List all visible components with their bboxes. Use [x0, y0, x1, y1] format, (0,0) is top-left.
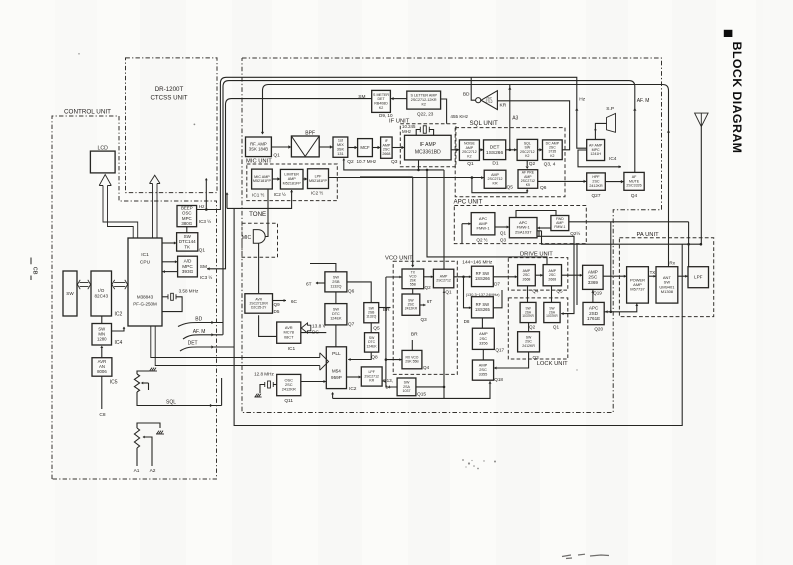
svg-text:Q3: Q3 — [533, 355, 540, 360]
svg-text:APC UNIT: APC UNIT — [454, 199, 483, 206]
svg-text:VCO UNIT: VCO UNIT — [385, 255, 413, 261]
svg-text:Q1: Q1 — [199, 248, 206, 254]
svg-text:BPF: BPF — [305, 131, 315, 137]
svg-text:Q1: Q1 — [445, 290, 452, 295]
svg-text:SM: SM — [200, 264, 207, 270]
svg-text:IC3 ½: IC3 ½ — [199, 218, 211, 224]
svg-text:MIC: MIC — [242, 235, 252, 241]
svg-text:1037: 1037 — [403, 389, 411, 393]
svg-text:Q6: Q6 — [348, 289, 355, 295]
svg-text:Hz: Hz — [199, 204, 205, 209]
svg-text:Q27: Q27 — [591, 193, 600, 199]
svg-text:393G: 393G — [182, 269, 194, 274]
svg-text:DTC: DTC — [332, 312, 340, 316]
svg-text:TX: TX — [650, 270, 656, 275]
svg-text:D2C25-2Y: D2C25-2Y — [251, 305, 267, 309]
svg-text:FMW-1: FMW-1 — [477, 226, 491, 231]
svg-text:HPF: HPF — [592, 175, 600, 179]
svg-text:13.8 V: 13.8 V — [312, 324, 327, 330]
svg-text:2SC3326: 2SC3326 — [626, 184, 641, 188]
svg-text:IC4: IC4 — [609, 156, 617, 162]
svg-text:TK: TK — [184, 244, 190, 249]
svg-text:S.P: S.P — [606, 106, 614, 112]
svg-text:Q1: Q1 — [273, 152, 280, 158]
svg-text:2412KR: 2412KR — [282, 387, 296, 392]
svg-text:Q20: Q20 — [594, 327, 603, 332]
svg-text:2SB: 2SB — [332, 280, 340, 284]
svg-text:1SS266: 1SS266 — [475, 276, 491, 281]
svg-text:CB: CB — [32, 267, 38, 275]
svg-text:LPF: LPF — [694, 274, 703, 279]
svg-text:LCD: LCD — [98, 146, 109, 152]
svg-text:LPF: LPF — [315, 174, 323, 178]
svg-text:3SK 184B: 3SK 184B — [249, 146, 268, 151]
svg-text:AMP: AMP — [588, 269, 598, 274]
svg-text:Q5: Q5 — [556, 289, 563, 294]
svg-text:KR: KR — [500, 103, 507, 109]
svg-text:DET: DET — [188, 341, 198, 347]
svg-text:82C43: 82C43 — [94, 293, 108, 298]
svg-text:M54: M54 — [332, 369, 341, 374]
svg-text:3369: 3369 — [588, 280, 599, 285]
svg-text:D7: D7 — [494, 282, 500, 287]
svg-text:3SK: 3SK — [337, 147, 345, 151]
svg-text:Q5: Q5 — [507, 184, 514, 190]
svg-text:LIMITER: LIMITER — [284, 173, 299, 177]
svg-text:144~146 MHz: 144~146 MHz — [462, 260, 493, 266]
svg-text:KR: KR — [493, 181, 498, 185]
svg-text:LOCK UNIT: LOCK UNIT — [537, 361, 568, 367]
svg-text:M52181FP: M52181FP — [253, 179, 272, 183]
svg-text:55B: 55B — [410, 283, 417, 287]
svg-text:3356: 3356 — [479, 340, 488, 345]
svg-text:Q5: Q5 — [373, 326, 380, 332]
svg-text:Q22, 23: Q22, 23 — [417, 111, 434, 116]
svg-text:IC2 ½: IC2 ½ — [311, 190, 323, 196]
svg-text:2SC2712-12KR: 2SC2712-12KR — [411, 98, 437, 102]
svg-text:APC: APC — [589, 306, 599, 311]
svg-text:BLOCK DIAGRAM: BLOCK DIAGRAM — [730, 42, 744, 154]
svg-text:Q6: Q6 — [540, 185, 547, 191]
svg-text:2412KR: 2412KR — [589, 184, 603, 188]
svg-text:D9, 10: D9, 10 — [379, 113, 393, 118]
svg-text:IC2: IC2 — [349, 386, 357, 392]
svg-text:D5: D5 — [274, 309, 280, 314]
svg-text:IC1: IC1 — [288, 346, 296, 352]
svg-text:MHz: MHz — [402, 129, 411, 134]
svg-text:1132Q: 1132Q — [330, 284, 341, 288]
svg-text:A2: A2 — [150, 468, 156, 474]
svg-text:3.58 MHz: 3.58 MHz — [179, 289, 199, 294]
svg-text:SQL UNIT: SQL UNIT — [470, 120, 499, 127]
svg-text:IC2: IC2 — [115, 312, 123, 318]
svg-text:SW: SW — [66, 291, 74, 296]
svg-text:D1: D1 — [492, 161, 498, 167]
svg-text:S LETTER AMP: S LETTER AMP — [410, 94, 437, 98]
svg-text:PA UNIT: PA UNIT — [637, 232, 660, 238]
svg-text:Q3: Q3 — [391, 159, 398, 165]
svg-text:A/D: A/D — [184, 258, 192, 263]
svg-text:D8: D8 — [464, 319, 470, 324]
svg-text:6C: 6C — [291, 299, 298, 305]
svg-text:1037KR: 1037KR — [546, 314, 558, 318]
svg-text:Q3: Q3 — [500, 238, 507, 243]
svg-text:10.7 MHz: 10.7 MHz — [357, 159, 377, 164]
svg-text:3355: 3355 — [479, 372, 488, 377]
svg-text:2SD: 2SD — [589, 311, 599, 316]
svg-text:1280: 1280 — [97, 336, 107, 341]
svg-text:Q1: Q1 — [500, 231, 507, 236]
svg-text:2SC: 2SC — [592, 180, 600, 184]
svg-text:M57737: M57737 — [630, 287, 645, 292]
svg-text:2SK 55B: 2SK 55B — [405, 359, 419, 363]
svg-text:Q2: Q2 — [425, 285, 432, 290]
svg-text:IC5: IC5 — [110, 380, 118, 386]
svg-text:BR: BR — [411, 331, 418, 337]
svg-text:IC4: IC4 — [115, 340, 123, 346]
svg-text:2SC2712: 2SC2712 — [436, 278, 451, 282]
svg-text:MIX: MIX — [337, 143, 344, 147]
svg-text:2412KR: 2412KR — [522, 344, 535, 348]
svg-text:Rx: Rx — [669, 261, 675, 266]
svg-text:2412KR: 2412KR — [405, 307, 418, 311]
svg-text:K2: K2 — [525, 154, 529, 158]
svg-text:M38843: M38843 — [137, 295, 154, 300]
svg-text:1241H: 1241H — [590, 152, 601, 156]
svg-text:Q17: Q17 — [495, 348, 504, 353]
svg-text:IC2 ½: IC2 ½ — [274, 191, 286, 197]
svg-text:1SS265: 1SS265 — [475, 307, 491, 312]
svg-text:CTCSS UNIT: CTCSS UNIT — [150, 95, 187, 102]
svg-text:M52181FP: M52181FP — [309, 179, 328, 183]
svg-text:BD: BD — [195, 316, 202, 322]
svg-text:Q8: Q8 — [371, 355, 378, 361]
svg-text:Q4: Q4 — [631, 193, 638, 199]
svg-text:455 KHz: 455 KHz — [450, 114, 468, 119]
svg-text:DR-1200T: DR-1200T — [155, 86, 184, 93]
svg-text:AF: AF — [632, 175, 637, 179]
svg-text:PLL: PLL — [332, 351, 341, 357]
svg-text:SW: SW — [333, 275, 340, 279]
svg-text:CPU: CPU — [140, 260, 151, 266]
svg-text:MIC UNIT: MIC UNIT — [246, 159, 272, 165]
svg-text:Q2: Q2 — [347, 159, 354, 165]
svg-text:K2: K2 — [467, 154, 471, 158]
svg-text:SQL: SQL — [166, 399, 176, 405]
svg-text:1037KR: 1037KR — [522, 314, 534, 318]
svg-text:IC1 ½: IC1 ½ — [252, 192, 264, 198]
svg-text:FMW-1: FMW-1 — [554, 225, 565, 229]
svg-text:K2: K2 — [550, 154, 554, 158]
svg-text:MUTE: MUTE — [629, 179, 640, 183]
svg-text:Q18: Q18 — [494, 377, 503, 382]
svg-text:I/O: I/O — [98, 288, 105, 293]
svg-text:MC3361BD: MC3361BD — [415, 150, 441, 156]
svg-text:Q19: Q19 — [593, 291, 602, 296]
svg-text:SW: SW — [333, 308, 340, 312]
svg-text:131: 131 — [337, 152, 343, 156]
svg-text:Q3: Q3 — [421, 317, 428, 322]
svg-text:2SC: 2SC — [588, 275, 598, 280]
svg-text:2668: 2668 — [382, 152, 390, 156]
svg-text:Hz: Hz — [579, 97, 585, 103]
svg-text:1SS266: 1SS266 — [486, 150, 503, 156]
svg-text:Q3, 4: Q3, 4 — [544, 161, 556, 167]
svg-text:AF. M: AF. M — [193, 329, 206, 335]
svg-text:MCF: MCF — [360, 145, 370, 150]
svg-text:AF. M: AF. M — [637, 98, 650, 104]
svg-text:MIC AMP: MIC AMP — [254, 175, 270, 179]
svg-text:1132Q: 1132Q — [366, 315, 376, 319]
svg-text:TONE: TONE — [249, 211, 266, 218]
svg-text:Q11: Q11 — [284, 398, 293, 404]
svg-text:A3: A3 — [512, 116, 518, 122]
svg-text:8006: 8006 — [97, 369, 107, 374]
svg-text:IC1: IC1 — [141, 252, 149, 258]
svg-text:PF-G-250M: PF-G-250M — [133, 302, 157, 307]
svg-text:124EK: 124EK — [330, 317, 342, 321]
svg-text:380G: 380G — [181, 221, 192, 226]
svg-text:2668: 2668 — [548, 277, 556, 281]
svg-text:2668: 2668 — [523, 277, 531, 281]
svg-text:A1: A1 — [134, 468, 140, 474]
svg-text:AMP: AMP — [288, 177, 297, 181]
svg-text:K2: K2 — [379, 106, 383, 110]
svg-text:Q4: Q4 — [532, 289, 539, 294]
svg-text:124EK: 124EK — [367, 344, 378, 348]
svg-text:DET: DET — [490, 144, 500, 150]
svg-text:1761E: 1761E — [587, 316, 600, 321]
svg-text:2SA1037: 2SA1037 — [515, 229, 532, 234]
svg-text:C8: C8 — [99, 412, 105, 418]
svg-text:Q1: Q1 — [553, 325, 560, 330]
svg-text:Q15: Q15 — [417, 392, 426, 398]
svg-text:Q9: Q9 — [274, 302, 281, 307]
svg-text:12.8 MHz: 12.8 MHz — [254, 371, 274, 376]
svg-text:Q1: Q1 — [467, 161, 474, 167]
svg-text:08CT: 08CT — [284, 334, 294, 339]
svg-text:CONTROL UNIT: CONTROL UNIT — [64, 109, 111, 116]
svg-text:K5: K5 — [526, 183, 530, 187]
svg-text:IC3 ½: IC3 ½ — [200, 274, 212, 280]
svg-text:M52181FP: M52181FP — [283, 182, 302, 186]
svg-text:MPC: MPC — [182, 264, 193, 269]
svg-text:K2: K2 — [421, 102, 426, 106]
svg-text:6T: 6T — [306, 282, 312, 288]
svg-text:Q2: Q2 — [529, 325, 536, 330]
svg-text:M1308: M1308 — [661, 289, 674, 294]
svg-text:6T: 6T — [427, 299, 433, 304]
svg-text:959P: 959P — [331, 375, 342, 380]
svg-text:Q2½: Q2½ — [570, 230, 580, 236]
svg-text:Q2: Q2 — [529, 161, 536, 167]
svg-text:Q4: Q4 — [423, 365, 430, 370]
svg-text:2712: 2712 — [485, 100, 492, 104]
svg-text:Q2 ½: Q2 ½ — [476, 237, 487, 243]
svg-text:IF AMP: IF AMP — [420, 142, 437, 148]
svg-text:BD: BD — [463, 91, 470, 97]
svg-text:KR: KR — [369, 379, 374, 383]
svg-text:Q7: Q7 — [348, 321, 355, 327]
